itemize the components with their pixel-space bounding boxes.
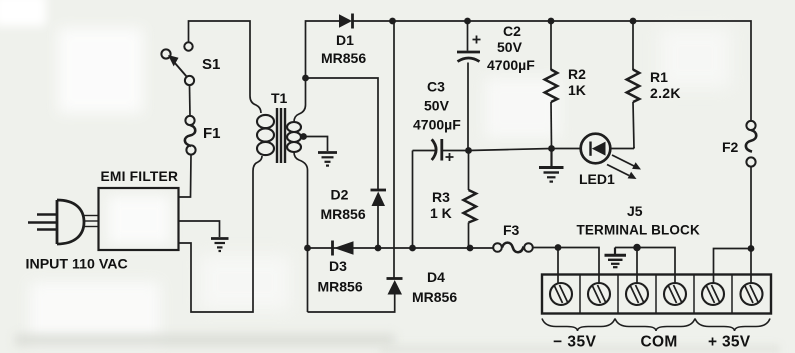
resistor R1 bbox=[627, 21, 640, 149]
svg-text:LED1: LED1 bbox=[579, 171, 615, 187]
capacitor C3 bbox=[413, 139, 469, 161]
svg-text:MR856: MR856 bbox=[321, 206, 366, 222]
svg-text:2.2K: 2.2K bbox=[650, 85, 681, 101]
wire S1 to F1 bbox=[189, 85, 192, 116]
secondary winding bbox=[287, 122, 301, 152]
svg-text:4700µF: 4700µF bbox=[413, 117, 461, 133]
node C2 top bbox=[464, 18, 471, 25]
scan white patches bbox=[0, 0, 46, 26]
svg-text:C3: C3 bbox=[427, 79, 445, 95]
svg-text:F2: F2 bbox=[722, 139, 739, 155]
wire secondary bottom lead down to D3 row bbox=[294, 152, 308, 312]
ground center tap bbox=[318, 153, 337, 166]
wire +35V pair bbox=[714, 249, 752, 285]
wire stub to D2 branch bbox=[306, 78, 379, 189]
wire mid node to LED node bbox=[469, 149, 552, 151]
svg-text:F1: F1 bbox=[203, 125, 221, 142]
node mid C3/R3 bbox=[465, 147, 472, 154]
diode D4 bbox=[387, 279, 403, 295]
node center tap bbox=[300, 133, 307, 140]
wire D4 to bottom U bbox=[308, 295, 395, 313]
svg-text:D2: D2 bbox=[331, 187, 349, 203]
node R1 top bbox=[630, 18, 637, 25]
core bbox=[276, 108, 278, 163]
svg-text:1 K: 1 K bbox=[430, 205, 452, 221]
diode D3 bbox=[333, 241, 354, 256]
primary winding bbox=[257, 115, 274, 155]
fuse F3 bbox=[493, 243, 533, 253]
terminal block J5 bbox=[542, 275, 771, 314]
svg-text:50V: 50V bbox=[497, 39, 523, 55]
wire terminal 3 drop bbox=[636, 248, 638, 285]
resistor R2 bbox=[545, 21, 558, 149]
EMI filter box bbox=[99, 188, 179, 250]
svg-text:+ 35V: + 35V bbox=[708, 334, 751, 351]
screw terminal 5 bbox=[702, 283, 724, 305]
resistor R3 bbox=[464, 151, 477, 249]
svg-text:− 35V: − 35V bbox=[553, 334, 597, 351]
brace COM bbox=[615, 319, 695, 332]
wire top-left bus from S1 up and over to T1 primary bbox=[189, 21, 262, 113]
wire F3 to terminal 1 bbox=[533, 247, 558, 249]
screw terminal 1 bbox=[550, 283, 572, 305]
svg-text:EMI FILTER: EMI FILTER bbox=[101, 169, 179, 184]
wire F2 down to +35V node bbox=[750, 167, 752, 249]
svg-text:MR856: MR856 bbox=[321, 50, 366, 66]
node C3 bottom bbox=[409, 245, 416, 252]
wire D4 branch from bus bbox=[393, 21, 395, 278]
node -35V bbox=[555, 244, 562, 251]
node COM bbox=[633, 244, 641, 252]
svg-text:J5: J5 bbox=[627, 203, 643, 219]
wire LED anode up to R1 bbox=[633, 147, 635, 149]
D3 row wire bbox=[308, 247, 495, 249]
wire terminal 1 drop bbox=[557, 248, 559, 285]
svg-text:R3: R3 bbox=[432, 189, 450, 205]
wire to terminal 2 bbox=[558, 248, 599, 285]
node R2 top bbox=[548, 18, 555, 25]
svg-text:MR856: MR856 bbox=[318, 279, 363, 295]
screw terminal 2 bbox=[588, 283, 610, 305]
svg-text:TERMINAL BLOCK: TERMINAL BLOCK bbox=[577, 223, 700, 238]
svg-text:D3: D3 bbox=[329, 258, 347, 274]
brace +35V bbox=[695, 319, 770, 332]
wire EMI mid pin to ground bbox=[179, 221, 220, 237]
screw terminal 6 bbox=[741, 283, 763, 305]
svg-text:COM: COM bbox=[641, 334, 678, 351]
node +35V bbox=[748, 245, 755, 252]
svg-text:S1: S1 bbox=[202, 56, 220, 73]
ground EMI bbox=[211, 239, 229, 252]
screw terminal 3 bbox=[626, 283, 648, 305]
wire EMI bottom pin down and to T1 primary bottom bbox=[179, 156, 263, 312]
wire D2 to row bbox=[377, 206, 379, 248]
diode D2 bbox=[371, 190, 387, 206]
node D2 bottom bbox=[375, 245, 382, 252]
ground LED bbox=[539, 149, 564, 182]
svg-text:4700µF: 4700µF bbox=[487, 57, 535, 73]
brace -35V bbox=[542, 319, 615, 332]
top bus wire bbox=[353, 21, 752, 121]
node B row left bbox=[304, 245, 311, 252]
cord plug to EMI box bbox=[84, 216, 99, 227]
svg-text:50V: 50V bbox=[424, 98, 450, 114]
svg-text:D1: D1 bbox=[336, 32, 354, 48]
wire secondary top lead up to D1 bbox=[294, 21, 339, 122]
svg-text:R1: R1 bbox=[650, 69, 668, 85]
AC plug bbox=[28, 200, 84, 244]
node secondary stub bbox=[302, 75, 309, 82]
wire COM pair bbox=[615, 248, 675, 285]
svg-text:INPUT 110 VAC: INPUT 110 VAC bbox=[26, 257, 128, 273]
svg-text:MR856: MR856 bbox=[412, 289, 457, 305]
svg-text:R2: R2 bbox=[568, 66, 586, 82]
svg-text:1K: 1K bbox=[568, 82, 586, 98]
ground COM bbox=[605, 248, 627, 268]
fuse F2 bbox=[746, 121, 756, 167]
wire F1 to EMI filter top pin bbox=[179, 155, 192, 197]
transformer T1 bbox=[257, 108, 301, 163]
capacitor C2 bbox=[457, 21, 481, 150]
node LED/ground bbox=[548, 145, 555, 152]
scan smudge bottom bbox=[15, 334, 395, 346]
screw terminal 4 bbox=[664, 283, 686, 305]
fuse F1 bbox=[185, 116, 196, 155]
svg-text:D4: D4 bbox=[427, 269, 445, 285]
wire C3 left down to row bbox=[412, 151, 414, 249]
svg-text:T1: T1 bbox=[271, 90, 288, 106]
node D2 top bbox=[389, 18, 396, 25]
switch S1 bbox=[161, 42, 194, 85]
diode D1 bbox=[339, 14, 353, 29]
svg-text:C2: C2 bbox=[503, 23, 521, 39]
LED1 bbox=[552, 134, 642, 179]
arrows bbox=[612, 155, 634, 166]
center tap wire bbox=[303, 137, 328, 152]
svg-text:F3: F3 bbox=[503, 222, 520, 238]
node R3 bottom bbox=[467, 245, 474, 252]
